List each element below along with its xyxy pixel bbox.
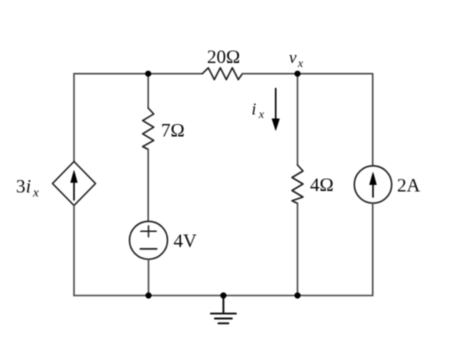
svg-text:v: v: [289, 48, 297, 67]
resistor R1 20Ω (top, horizontal): [202, 68, 242, 80]
arrow inside dependent source (pointing up): [71, 171, 78, 200]
svg-text:i: i: [26, 177, 31, 198]
resistor R2 7Ω (vertical): [143, 108, 154, 149]
current source I1 2A (circle): [354, 166, 391, 203]
wire: bottom rail: [74, 295, 373, 297]
wire: branch x=297 lower (4-ohm resistor to bottom node): [297, 204, 299, 296]
svg-text:7Ω: 7Ω: [161, 121, 185, 142]
plus sign of V1: [141, 226, 156, 237]
ground symbol: [211, 296, 236, 324]
junction: bottom node of 4V branch: [145, 292, 151, 298]
svg-text:3: 3: [16, 177, 26, 198]
svg-text:x: x: [297, 56, 304, 70]
wire: branch x=148 middle (7-ohm resistor to 4V source): [147, 149, 149, 221]
dependent current source U1 (diamond, 3ix): [53, 162, 96, 206]
node vx junction dot: [294, 71, 300, 77]
arrow inside 2A source (pointing up): [370, 173, 377, 198]
wire: branch x=148 upper (top node to 7-ohm resistor): [147, 74, 149, 108]
svg-text:x: x: [32, 185, 39, 200]
wire: left vertical lower (dependent source to bottom-left corner): [73, 206, 75, 296]
svg-text:4V: 4V: [174, 231, 198, 252]
current arrow ix (pointing down): [272, 89, 279, 131]
svg-text:i: i: [252, 100, 257, 119]
svg-text:2A: 2A: [397, 176, 421, 197]
resistor R3 4Ω (vertical): [292, 165, 303, 203]
minus sign of V1: [140, 248, 156, 250]
junction: top node of 7-ohm branch: [145, 71, 151, 77]
wire: top-right segment (20-ohm resistor to node vx and right corner): [242, 73, 372, 75]
svg-text:4Ω: 4Ω: [310, 175, 334, 196]
wire: branch x=297 upper (node vx down to 4-ohm resistor): [297, 74, 299, 165]
junction: bottom node of 4-ohm branch: [294, 292, 300, 298]
wire: left vertical upper (top-left corner down to dependent source): [73, 74, 75, 162]
svg-text:20Ω: 20Ω: [207, 47, 240, 68]
junction: ground node: [220, 292, 226, 298]
voltage source V1 4V (circle): [130, 221, 168, 259]
wire: right vertical upper (top-right corner to 2A source): [372, 74, 374, 166]
svg-text:x: x: [258, 107, 265, 121]
wire: right vertical lower (2A source to bottom-right corner): [372, 203, 374, 295]
wire: top-left segment (left corner to 20-ohm resistor): [74, 73, 202, 75]
wire: branch x=148 lower (4V source to bottom node): [148, 259, 150, 295]
